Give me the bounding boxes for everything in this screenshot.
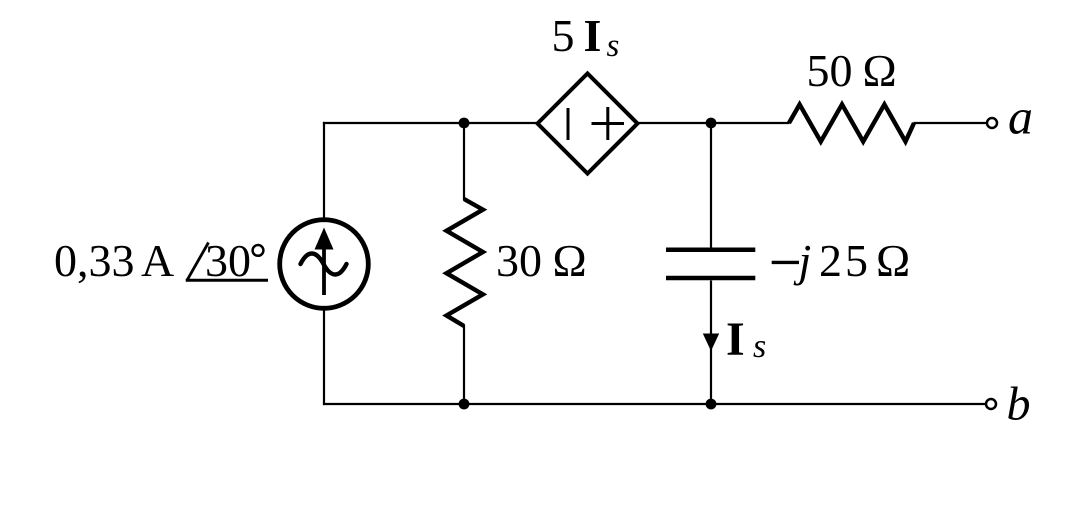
svg-text:s: s [607, 28, 620, 64]
svg-text:30: 30 [205, 235, 251, 286]
capacitor bottom plate [666, 276, 755, 281]
svg-text:Ω: Ω [553, 235, 587, 286]
junction dot top capacitor node [706, 118, 717, 129]
current source circle [280, 220, 369, 309]
svg-text:30: 30 [496, 235, 542, 286]
resistor 50 ohm (horizontal zigzag) [789, 104, 914, 141]
junction dot bottom capacitor node [706, 399, 717, 410]
diamond minus bar [567, 108, 570, 140]
svg-text:j: j [794, 235, 812, 286]
svg-text:0,33: 0,33 [54, 235, 135, 286]
svg-text:Ω: Ω [863, 45, 897, 96]
svg-text:Ω: Ω [876, 235, 910, 286]
junction dot top 30-ohm node [459, 118, 470, 129]
terminal b circle [986, 399, 996, 409]
wire top-middle (diamond to 50-ohm resistor) [637, 122, 790, 124]
wire 30-ohm branch upper [463, 123, 465, 200]
dependent source diamond [538, 74, 638, 174]
degree ring [253, 245, 264, 256]
svg-text:2: 2 [819, 235, 842, 286]
svg-text:I: I [726, 313, 745, 366]
current Is arrowhead [703, 334, 719, 352]
wire capacitor branch upper [710, 123, 712, 248]
current source arrow shaft [322, 248, 326, 295]
svg-text:50: 50 [807, 45, 853, 96]
diamond plus sign [592, 107, 625, 140]
wire bottom (node b rail) [323, 403, 987, 405]
svg-text:s: s [753, 328, 766, 365]
svg-text:a: a [1008, 89, 1033, 145]
current source sine squiggle [301, 254, 347, 275]
label minus sign [772, 261, 799, 264]
wire capacitor branch lower [710, 281, 712, 405]
svg-text:5: 5 [552, 10, 575, 61]
junction dot bottom 30-ohm node [459, 399, 470, 410]
current source arrowhead [315, 228, 334, 250]
svg-text:b: b [1007, 378, 1031, 431]
wire 30-ohm branch lower [463, 325, 465, 404]
svg-text:5: 5 [845, 235, 868, 286]
svg-text:A: A [141, 235, 174, 286]
wire left vertical upper [323, 122, 325, 220]
angle symbol slash [187, 243, 209, 281]
wire left vertical lower [323, 308, 325, 405]
svg-text:I: I [584, 10, 602, 61]
terminal a circle [987, 118, 997, 128]
capacitor top plate [666, 248, 755, 253]
resistor 30 ohm (vertical zigzag) [447, 199, 483, 326]
angle symbol underline [186, 279, 268, 282]
wire top-left (source top to diamond) [323, 122, 538, 124]
wire top-right (resistor to terminal a) [914, 122, 987, 124]
